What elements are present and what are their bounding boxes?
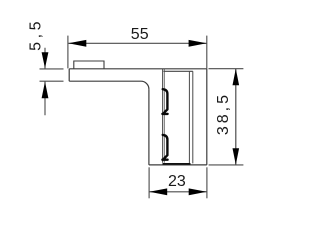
clip bump 1: [162, 89, 167, 114]
dim 5,5: arrow down: [42, 52, 49, 68]
dim 5,5: extension line top: [40, 68, 64, 70]
dim 55: dimension line: [68, 42, 206, 44]
dim 38,5: arrow up: [233, 69, 240, 86]
bracket arm top edge: [69, 68, 207, 70]
inner bottom edge (thick): [163, 163, 191, 165]
dim 38,5: extension line top: [209, 68, 244, 70]
svg-text:5,5: 5,5: [28, 18, 45, 51]
inner top edge: [163, 70, 193, 72]
dim 38,5: extension line bottom: [209, 164, 244, 166]
bracket arm bottom edge with fillet: [69, 81, 149, 89]
dim 23: arrow right: [189, 188, 207, 195]
dim 55: arrow right: [189, 40, 207, 47]
bracket arm left edge: [68, 69, 70, 81]
dim 55: extension line left: [67, 36, 69, 69]
svg-text:55: 55: [131, 26, 149, 43]
dim 55: extension line right: [206, 36, 208, 69]
dim 23: arrow left: [149, 188, 167, 195]
dim 38,5: arrow down: [233, 148, 240, 165]
bracket leg left edge: [148, 89, 150, 165]
bracket leg right edge: [206, 69, 208, 165]
svg-text:38,5: 38,5: [215, 92, 232, 135]
bracket leg bottom edge: [149, 164, 207, 166]
inner left double line: [163, 69, 165, 163]
dim 23: dimension line: [149, 191, 207, 193]
clip bump 2: [162, 135, 167, 160]
dim 23: extension line right: [206, 167, 208, 198]
dim 38,5: dimension line: [235, 69, 237, 165]
svg-text:23: 23: [168, 173, 186, 190]
dim 5,5: arrow up: [42, 82, 49, 99]
dim 55: arrow left: [68, 40, 86, 47]
inner right double line: [189, 71, 192, 163]
dim 23: extension line left: [148, 167, 150, 198]
dim 5,5: dimension line tails: [44, 48, 46, 116]
dim 5,5: extension line bottom: [40, 80, 64, 82]
tab on top of arm: [74, 61, 104, 69]
